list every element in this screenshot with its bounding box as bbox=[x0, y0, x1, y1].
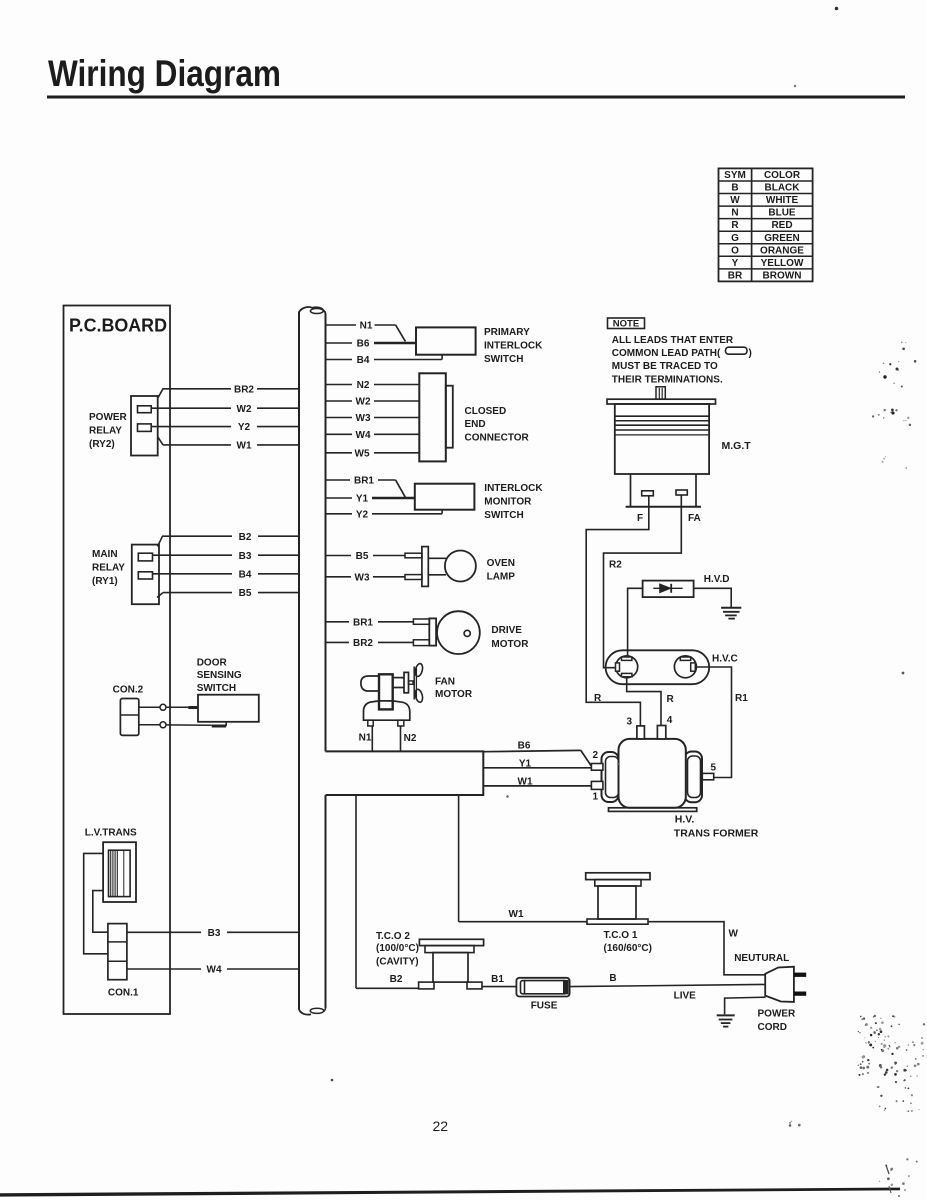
wire color code table bbox=[719, 168, 813, 281]
power cord label bbox=[758, 1009, 797, 1034]
svg-text:YELLOW: YELLOW bbox=[761, 258, 804, 269]
svg-text:CONNECTOR: CONNECTOR bbox=[465, 433, 530, 444]
svg-text:WHITE: WHITE bbox=[766, 195, 799, 206]
svg-text:B5: B5 bbox=[356, 551, 369, 562]
M.G.T label bbox=[722, 440, 752, 452]
svg-text:B4: B4 bbox=[357, 355, 370, 366]
scan noise specks bbox=[331, 7, 926, 1197]
svg-text:ORANGE: ORANGE bbox=[760, 245, 804, 256]
svg-text:FUSE: FUSE bbox=[531, 1000, 558, 1011]
svg-text:O: O bbox=[731, 245, 739, 256]
svg-text:BLACK: BLACK bbox=[765, 183, 801, 194]
svg-text:CLOSED: CLOSED bbox=[465, 406, 507, 417]
svg-text:Y1: Y1 bbox=[519, 758, 532, 769]
wire R2 (FA terminal to H.V.C) bbox=[604, 495, 682, 668]
svg-text:22: 22 bbox=[433, 1118, 449, 1134]
svg-text:BR2: BR2 bbox=[234, 384, 254, 395]
wire B5 (oven lamp) bbox=[326, 551, 406, 562]
svg-text:Wiring Diagram: Wiring Diagram bbox=[48, 53, 281, 94]
door sensing switch bbox=[198, 695, 259, 722]
interlock monitor switch bbox=[415, 484, 475, 510]
svg-text:ALL LEADS THAT ENTER: ALL LEADS THAT ENTER bbox=[612, 335, 734, 346]
svg-text:4: 4 bbox=[667, 715, 673, 726]
fan motor bbox=[361, 663, 424, 726]
wire B6 bbox=[326, 339, 417, 350]
H.V.D label bbox=[704, 574, 730, 585]
svg-text:OVEN: OVEN bbox=[487, 558, 515, 569]
svg-text:NEUTURAL: NEUTURAL bbox=[734, 953, 789, 964]
svg-text:W5: W5 bbox=[355, 448, 370, 459]
low voltage transformer (L.V.TRANS) bbox=[103, 842, 136, 902]
wire B1 (T.C.O 2 to fuse) bbox=[482, 974, 516, 987]
title: Wiring Diagram bbox=[48, 53, 281, 94]
wire B5 (main relay) bbox=[157, 588, 299, 599]
wire N1 bbox=[326, 321, 406, 342]
svg-text:MOTOR: MOTOR bbox=[435, 689, 473, 700]
svg-text:W1: W1 bbox=[509, 909, 524, 920]
svg-text:N2: N2 bbox=[357, 380, 370, 391]
wire W1 (to transformer terminal 1) bbox=[483, 776, 591, 787]
svg-text:FA: FA bbox=[688, 513, 701, 524]
svg-text:BLUE: BLUE bbox=[768, 208, 796, 219]
wire N2 bbox=[326, 380, 420, 391]
svg-text:GREEN: GREEN bbox=[764, 233, 800, 244]
note text bbox=[612, 335, 752, 385]
svg-text:SENSING: SENSING bbox=[197, 670, 242, 681]
svg-text:RELAY: RELAY bbox=[89, 426, 122, 437]
high voltage capacitor H.V.C bbox=[606, 650, 710, 684]
svg-text:COLOR: COLOR bbox=[764, 170, 801, 181]
wire Y2 (interlock monitor) bbox=[326, 509, 443, 520]
wire B (fuse to power cord live) bbox=[570, 973, 771, 986]
svg-text:G: G bbox=[731, 233, 739, 244]
NEUTURAL label bbox=[734, 953, 789, 964]
svg-text:): ) bbox=[749, 348, 752, 359]
wire Y2 bbox=[151, 422, 299, 433]
svg-text:W3: W3 bbox=[356, 413, 371, 424]
svg-text:Y: Y bbox=[732, 258, 739, 269]
svg-text:F: F bbox=[637, 513, 643, 524]
svg-text:5: 5 bbox=[711, 763, 717, 774]
wire W2 bbox=[151, 404, 299, 415]
ground symbol (H.V.D) bbox=[721, 608, 741, 619]
LIVE label bbox=[674, 990, 697, 1001]
svg-text:W: W bbox=[729, 929, 739, 940]
svg-text:B1: B1 bbox=[491, 974, 504, 985]
magnetron terminal F label bbox=[637, 513, 643, 524]
svg-text:NOTE: NOTE bbox=[613, 319, 639, 330]
svg-text:B3: B3 bbox=[208, 928, 221, 939]
svg-text:W2: W2 bbox=[356, 397, 371, 408]
wire B3 bbox=[153, 551, 299, 562]
svg-text:B3: B3 bbox=[239, 551, 252, 562]
svg-text:BR1: BR1 bbox=[354, 476, 374, 487]
svg-text:MOTOR: MOTOR bbox=[491, 639, 529, 650]
drive motor bbox=[413, 611, 479, 654]
svg-text:H.V.C: H.V.C bbox=[712, 654, 738, 665]
closed end connector label bbox=[465, 406, 530, 444]
ground symbol (power cord) bbox=[717, 1015, 735, 1026]
svg-text:Y2: Y2 bbox=[238, 422, 251, 433]
note box bbox=[608, 318, 645, 330]
svg-text:COMMON LEAD PATH(: COMMON LEAD PATH( bbox=[612, 348, 721, 359]
svg-text:MAIN: MAIN bbox=[92, 549, 118, 560]
svg-text:R: R bbox=[594, 693, 602, 704]
bus top cap bbox=[299, 307, 326, 314]
svg-text:H.V.: H.V. bbox=[675, 814, 695, 826]
svg-text:B2: B2 bbox=[239, 532, 252, 543]
svg-text:POWER: POWER bbox=[758, 1009, 797, 1020]
svg-text:B4: B4 bbox=[239, 569, 252, 580]
wire H.V.D cathode lead to ground bbox=[694, 588, 732, 607]
drive motor label bbox=[491, 625, 529, 650]
svg-text:PRIMARY: PRIMARY bbox=[484, 327, 530, 338]
svg-text:BROWN: BROWN bbox=[763, 271, 802, 282]
svg-text:B: B bbox=[609, 973, 616, 984]
svg-text:B6: B6 bbox=[518, 741, 531, 752]
svg-text:SWITCH: SWITCH bbox=[197, 683, 236, 694]
wire CON.2 upper contact bbox=[139, 704, 198, 710]
svg-text:SYM: SYM bbox=[724, 170, 746, 181]
svg-text:T.C.O 2: T.C.O 2 bbox=[376, 931, 410, 942]
wire W4 (CON.1) bbox=[127, 965, 299, 976]
svg-text:W4: W4 bbox=[207, 965, 222, 976]
fuse label bbox=[531, 1000, 558, 1011]
wire W5 bbox=[326, 448, 420, 459]
svg-text:B6: B6 bbox=[357, 339, 370, 350]
svg-text:T.C.O 1: T.C.O 1 bbox=[604, 930, 638, 941]
svg-text:MUST BE TRACED TO: MUST BE TRACED TO bbox=[612, 361, 718, 372]
wire CON.2 lower contact bbox=[139, 722, 226, 728]
svg-text:R1: R1 bbox=[735, 693, 748, 704]
wire R (F terminal to transformer terminal 3) bbox=[586, 496, 649, 726]
power relay label bbox=[89, 412, 128, 450]
wire BR2 (drive motor) bbox=[326, 638, 414, 649]
door sensing switch label bbox=[197, 657, 242, 694]
svg-text:(CAVITY): (CAVITY) bbox=[376, 957, 419, 968]
primary interlock switch bbox=[416, 327, 476, 354]
wire earth lead from power cord bbox=[725, 997, 766, 1014]
svg-text:LIVE: LIVE bbox=[674, 990, 697, 1001]
svg-text:TRANS FORMER: TRANS FORMER bbox=[674, 828, 759, 840]
central wiring harness bus (left edge) bbox=[298, 312, 300, 1010]
svg-text:Y1: Y1 bbox=[356, 494, 369, 505]
svg-text:W: W bbox=[730, 195, 740, 206]
svg-text:FAN: FAN bbox=[435, 676, 455, 687]
svg-text:BR: BR bbox=[728, 271, 743, 282]
svg-text:(160/60°C): (160/60°C) bbox=[604, 943, 652, 954]
wire B4 bbox=[326, 355, 443, 367]
svg-text:POWER: POWER bbox=[89, 412, 128, 423]
H.V.C label bbox=[712, 654, 738, 665]
svg-text:N1: N1 bbox=[360, 321, 373, 332]
wire B2 drop from trunk bbox=[356, 795, 419, 988]
svg-text:BR1: BR1 bbox=[353, 617, 373, 628]
P.C. board outline bbox=[64, 306, 171, 1015]
svg-text:N1: N1 bbox=[359, 733, 372, 744]
CON.1 label bbox=[108, 987, 139, 998]
svg-text:N2: N2 bbox=[404, 733, 417, 744]
note common-lead-path symbol bbox=[726, 347, 748, 354]
primary interlock switch label bbox=[484, 327, 543, 365]
svg-text:CON.2: CON.2 bbox=[113, 684, 144, 695]
fan motor label bbox=[435, 676, 473, 700]
wire BR1 (drive motor) bbox=[326, 617, 414, 628]
svg-text:CON.1: CON.1 bbox=[108, 987, 139, 998]
svg-text:(100/0°C): (100/0°C) bbox=[376, 943, 419, 954]
svg-text:(RY2): (RY2) bbox=[89, 439, 115, 450]
svg-text:RED: RED bbox=[771, 220, 792, 231]
svg-text:BR2: BR2 bbox=[353, 638, 373, 649]
svg-text:THEIR TERMINATIONS.: THEIR TERMINATIONS. bbox=[612, 374, 723, 385]
central wiring harness bus (right edge lower) bbox=[325, 795, 327, 1008]
svg-text:DOOR: DOOR bbox=[197, 657, 228, 668]
wire W3 (closed end connector) bbox=[326, 413, 420, 424]
central wiring harness bus (right edge upper) bbox=[325, 314, 327, 752]
svg-text:SWITCH: SWITCH bbox=[484, 510, 523, 521]
main relay (RY1) bbox=[132, 545, 159, 605]
P.C. board label bbox=[69, 315, 167, 336]
svg-text:W1: W1 bbox=[518, 776, 533, 787]
magnetron terminal FA label bbox=[688, 513, 701, 524]
power cord plug bbox=[765, 967, 806, 1002]
svg-text:W4: W4 bbox=[356, 430, 371, 441]
wire B3 (CON.1) bbox=[127, 928, 299, 939]
svg-text:Y2: Y2 bbox=[356, 509, 369, 520]
common lead path trunk bbox=[326, 751, 484, 795]
main relay label bbox=[92, 549, 125, 587]
svg-text:B2: B2 bbox=[390, 974, 403, 985]
svg-text:W2: W2 bbox=[237, 404, 252, 415]
wire L.V.TRANS inner loop to CON.1 bbox=[93, 891, 108, 933]
svg-text:P.C.BOARD: P.C.BOARD bbox=[69, 315, 167, 336]
svg-text:(RY1): (RY1) bbox=[92, 576, 118, 587]
T.C.O 1 label bbox=[604, 930, 652, 954]
connector CON.1 bbox=[108, 924, 127, 980]
svg-text:LAMP: LAMP bbox=[487, 572, 516, 583]
title underline rule bbox=[47, 96, 905, 99]
T.C.O 2 label bbox=[376, 931, 419, 968]
wire R1 (H.V.C to transformer terminal 5) bbox=[695, 667, 748, 778]
wire BR2 bbox=[158, 384, 300, 398]
wire Y1 bbox=[326, 494, 415, 505]
CON.2 label bbox=[113, 684, 144, 695]
transformer terminal labels bbox=[593, 715, 717, 803]
oven lamp bbox=[405, 547, 476, 587]
svg-text:3: 3 bbox=[627, 717, 633, 728]
svg-text:R: R bbox=[731, 220, 739, 231]
wire B6 (to transformer terminal 2) bbox=[483, 741, 591, 766]
H.V. transformer label bbox=[674, 814, 759, 840]
svg-text:1: 1 bbox=[593, 792, 599, 803]
wire N2 (fan motor lead) bbox=[401, 726, 417, 751]
svg-text:INTERLOCK: INTERLOCK bbox=[484, 341, 543, 352]
svg-text:MONITOR: MONITOR bbox=[484, 496, 532, 507]
svg-text:R: R bbox=[667, 694, 675, 705]
wire B4 (main relay) bbox=[153, 569, 299, 580]
wire W4 (closed end connector) bbox=[326, 430, 420, 441]
wire BR1 bbox=[326, 476, 406, 498]
wire W2 (closed end connector) bbox=[326, 397, 420, 408]
interlock monitor switch label bbox=[484, 483, 543, 521]
svg-text:END: END bbox=[465, 419, 486, 430]
svg-text:2: 2 bbox=[593, 750, 599, 761]
page number bbox=[433, 1118, 449, 1134]
svg-text:R2: R2 bbox=[609, 560, 622, 571]
wire L.V.TRANS outer loop to CON.1 bbox=[84, 853, 108, 953]
svg-text:H.V.D: H.V.D bbox=[704, 574, 730, 585]
closed end connector bbox=[419, 373, 453, 461]
wire Y1 (to transformer terminal 2) bbox=[483, 758, 591, 769]
thermal cutout T.C.O 2 (cavity) bbox=[419, 939, 484, 989]
wire H.V.D anode lead to H.V.C bbox=[628, 588, 643, 657]
svg-text:CORD: CORD bbox=[758, 1022, 787, 1033]
magnetron M.G.T bbox=[607, 387, 716, 507]
wire R (H.V.C to transformer terminal 4) bbox=[627, 677, 675, 726]
svg-text:B5: B5 bbox=[239, 588, 252, 599]
svg-text:W1: W1 bbox=[237, 441, 252, 452]
svg-text:N: N bbox=[731, 208, 738, 219]
connector CON.2 bbox=[120, 699, 138, 736]
svg-text:SWITCH: SWITCH bbox=[484, 354, 523, 365]
wire W1 drop from trunk to T.C.O 1 bbox=[459, 795, 587, 922]
svg-text:L.V.TRANS: L.V.TRANS bbox=[85, 827, 137, 838]
svg-text:M.G.T: M.G.T bbox=[722, 440, 752, 452]
svg-text:B: B bbox=[731, 183, 738, 194]
svg-text:W3: W3 bbox=[355, 572, 370, 583]
high voltage transformer bbox=[591, 726, 713, 812]
L.V.TRANS label bbox=[85, 827, 137, 838]
bus bottom cap bbox=[299, 1008, 326, 1015]
high voltage diode H.V.D bbox=[643, 581, 694, 598]
bottom page rule bbox=[0, 1188, 900, 1197]
svg-text:RELAY: RELAY bbox=[92, 563, 125, 574]
wire W1 bbox=[158, 437, 299, 452]
thermal cutout T.C.O 1 bbox=[586, 873, 650, 924]
svg-text:INTERLOCK: INTERLOCK bbox=[484, 483, 543, 494]
fuse bbox=[516, 978, 569, 997]
wire W (T.C.O 1 to power cord neutral) bbox=[648, 922, 766, 975]
svg-text:DRIVE: DRIVE bbox=[491, 625, 522, 636]
power relay (RY2) bbox=[131, 396, 158, 456]
wire W3 (oven lamp) bbox=[326, 572, 406, 583]
oven lamp label bbox=[487, 558, 516, 583]
wire N1 (fan motor lead) bbox=[359, 726, 373, 751]
wire B2 bbox=[158, 532, 300, 547]
